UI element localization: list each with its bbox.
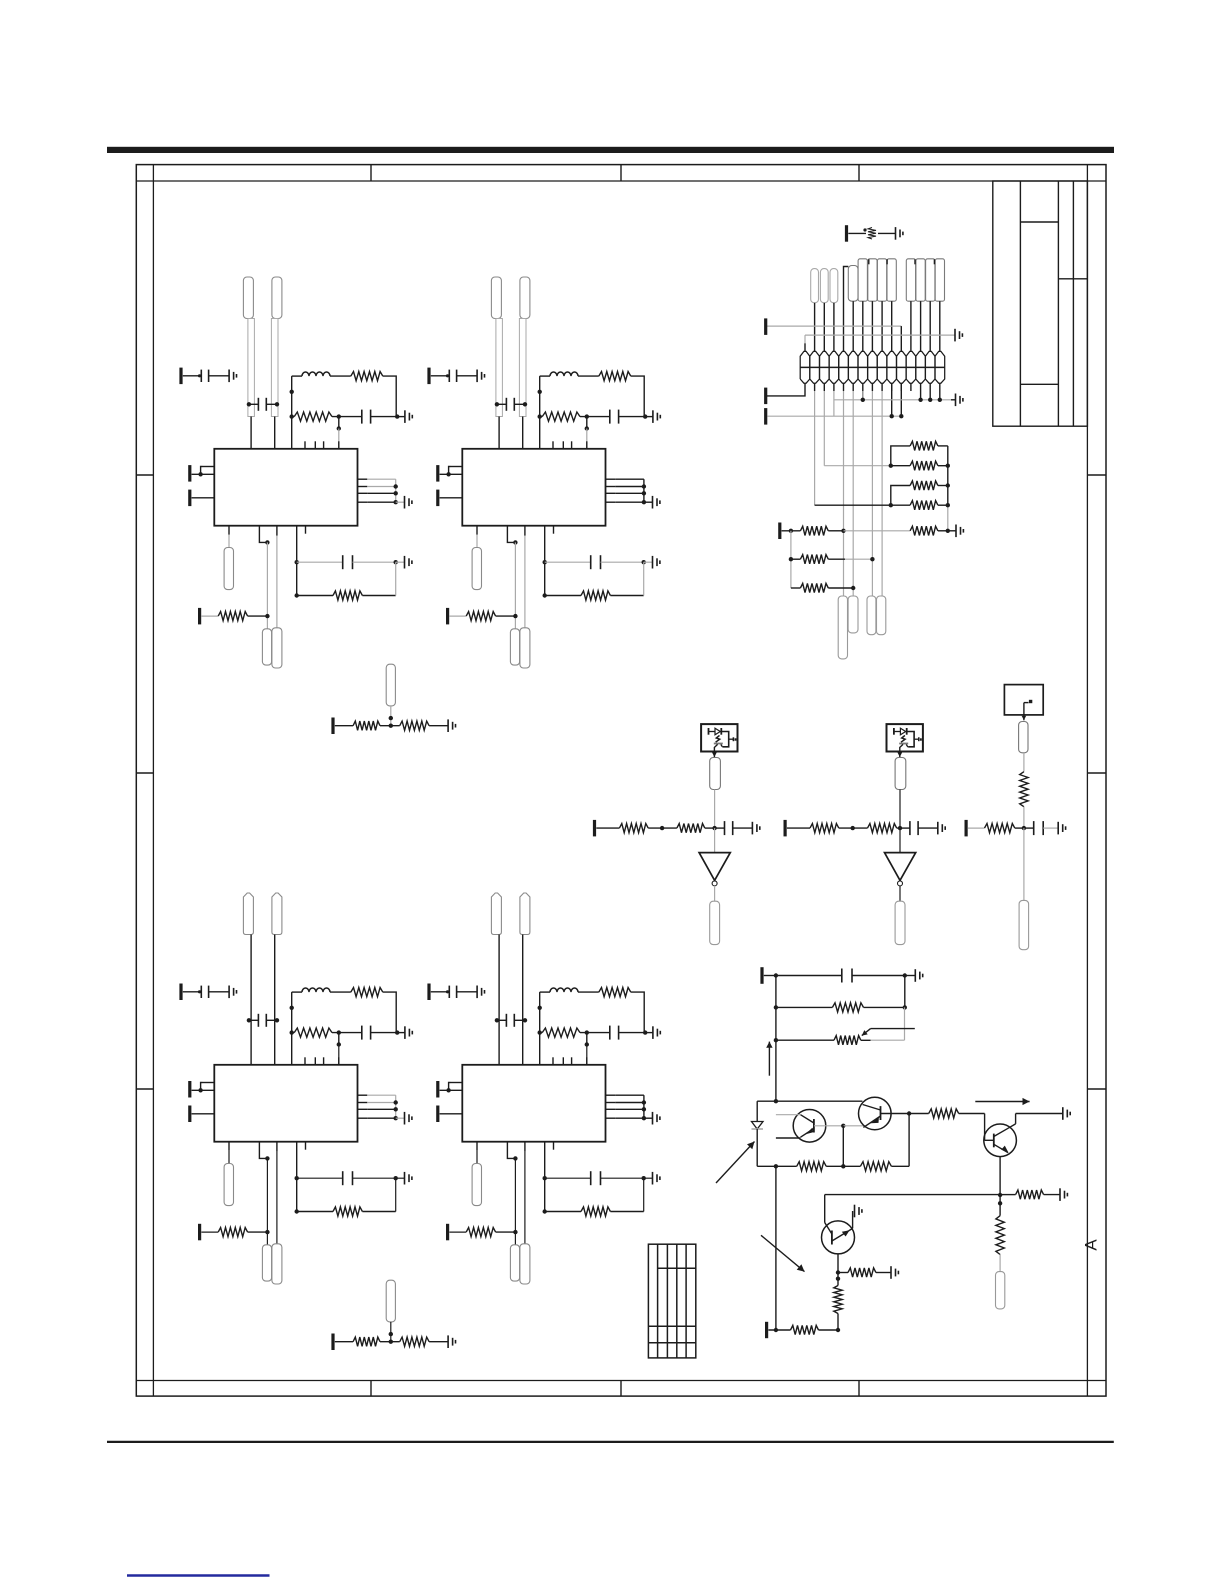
junction <box>774 1328 778 1332</box>
pin <box>900 383 902 391</box>
capacitor Ct <box>842 969 852 983</box>
pin <box>910 383 912 391</box>
wire <box>431 375 450 377</box>
wire <box>580 1032 610 1034</box>
junction <box>642 560 646 564</box>
wire <box>1043 827 1058 829</box>
pin <box>606 478 616 480</box>
net label pill IN1 <box>491 277 501 319</box>
wire <box>524 536 526 628</box>
net label pill <box>510 629 519 665</box>
pin <box>228 526 230 535</box>
wire <box>371 1032 398 1034</box>
junction <box>389 724 393 728</box>
junction <box>295 1176 299 1180</box>
resistor R-fb <box>351 372 383 381</box>
wire <box>353 1177 396 1179</box>
junction <box>446 472 450 476</box>
op-amp IC U1 <box>214 1065 357 1142</box>
wire <box>1008 1124 1016 1128</box>
wire <box>644 1117 653 1119</box>
wire <box>891 1165 909 1167</box>
net label pill <box>811 269 819 303</box>
pin <box>562 441 564 449</box>
wire <box>852 975 905 977</box>
junction <box>394 560 398 564</box>
wire <box>540 1032 543 1034</box>
wire net IN2 <box>271 319 278 417</box>
pin <box>524 526 526 536</box>
wire <box>1023 753 1025 772</box>
wire <box>776 975 842 977</box>
wire <box>545 561 591 563</box>
junction <box>774 1164 778 1168</box>
junction <box>543 593 547 597</box>
wire <box>266 403 277 405</box>
wire net <box>871 391 873 596</box>
wire <box>201 467 203 475</box>
border zone divider bottom <box>370 1381 372 1397</box>
wire <box>843 1125 863 1127</box>
resistor R-d1 <box>353 721 380 730</box>
inductor L1 <box>550 988 578 992</box>
wire net <box>814 391 816 505</box>
pin <box>440 497 463 499</box>
resistor R-b <box>581 1207 610 1216</box>
net label pill <box>916 259 925 301</box>
annotation arrow to diode <box>716 1142 755 1184</box>
wire <box>643 1095 645 1118</box>
junction <box>585 426 589 430</box>
resistor R-b <box>333 591 362 600</box>
net label pill <box>848 266 858 302</box>
wire <box>814 1125 843 1127</box>
pin <box>314 1057 316 1065</box>
junction <box>523 402 527 406</box>
pin <box>852 383 854 391</box>
junction <box>290 1006 294 1010</box>
wire <box>449 615 466 617</box>
pin <box>871 383 873 391</box>
wire <box>457 991 478 993</box>
wire <box>601 561 644 563</box>
zone letter A <box>1082 1239 1101 1251</box>
junction <box>851 826 855 830</box>
border zone divider left <box>136 474 153 476</box>
junction <box>247 1018 251 1022</box>
wire <box>897 827 900 829</box>
net label pill <box>867 596 876 635</box>
net label pill <box>272 1244 282 1284</box>
wire <box>586 417 588 429</box>
wire <box>276 1152 278 1244</box>
junction <box>889 464 893 468</box>
pin <box>358 478 368 480</box>
net label pill <box>877 259 886 301</box>
border zone divider right <box>1087 772 1106 774</box>
junction <box>841 1164 845 1168</box>
wire <box>899 790 901 829</box>
wire to pin <box>274 417 276 449</box>
wire <box>228 1151 230 1164</box>
junction <box>642 491 646 495</box>
ground <box>477 986 484 999</box>
net label pill <box>710 758 721 790</box>
wire <box>380 1341 400 1343</box>
pin <box>192 497 215 499</box>
junction <box>903 973 907 977</box>
junction <box>938 398 942 402</box>
junction <box>890 414 894 418</box>
wire <box>826 1165 843 1167</box>
ground <box>653 1112 660 1125</box>
junction <box>543 1176 547 1180</box>
net label pill <box>820 269 828 303</box>
power port <box>188 1106 191 1123</box>
inductor L1 <box>550 372 578 376</box>
wire <box>297 595 333 597</box>
junction <box>395 414 399 418</box>
wire <box>396 1117 405 1119</box>
ground <box>448 1335 455 1348</box>
pin <box>440 1113 463 1115</box>
wire <box>776 1165 797 1167</box>
junction <box>198 374 201 377</box>
wire <box>1015 827 1024 829</box>
wire <box>757 1100 862 1102</box>
connector block J2 <box>1004 685 1043 715</box>
power port <box>764 408 767 425</box>
resistor R-b <box>333 1207 362 1216</box>
resistor R-z <box>542 1028 580 1037</box>
wire to pin <box>250 1033 252 1065</box>
wire <box>864 1006 905 1008</box>
wire net IN2 <box>519 319 526 417</box>
junction <box>394 1116 398 1120</box>
resistor R-d2 <box>400 1337 429 1346</box>
border zone divider top <box>620 165 622 181</box>
wire <box>266 1019 277 1021</box>
ground <box>653 496 660 509</box>
wire <box>714 790 716 829</box>
wire <box>249 403 259 405</box>
junction <box>642 1100 646 1104</box>
junction <box>389 1340 393 1344</box>
net label pill <box>472 1164 481 1206</box>
wire <box>431 991 450 993</box>
wire <box>371 416 398 418</box>
wire <box>201 615 218 617</box>
wire <box>395 479 397 502</box>
ground <box>1060 1188 1067 1201</box>
wire arrow <box>712 752 717 758</box>
transistor Q3 <box>984 1124 1017 1157</box>
wire <box>266 1158 268 1244</box>
sheet border outer <box>136 165 1106 1397</box>
wire <box>297 561 343 563</box>
power port <box>331 1334 334 1351</box>
net label pill <box>1019 900 1029 949</box>
resistor R-fb <box>599 988 631 997</box>
pin <box>606 486 616 488</box>
power port <box>198 608 201 625</box>
wire node <box>291 376 293 449</box>
pin <box>276 526 278 536</box>
wire <box>910 301 912 351</box>
wire <box>776 1137 801 1139</box>
wire net <box>833 391 835 416</box>
wire <box>383 376 396 417</box>
junction <box>265 1156 269 1160</box>
wire <box>947 505 949 531</box>
wire <box>645 1032 653 1034</box>
pin <box>814 383 816 391</box>
wire <box>644 501 653 503</box>
net label pill IN2 <box>272 277 282 319</box>
junction <box>774 1005 778 1009</box>
wire <box>904 1007 906 1040</box>
wire arrow <box>897 752 902 758</box>
pin <box>606 1094 616 1096</box>
pin <box>338 441 340 449</box>
power port <box>593 820 596 837</box>
title block <box>993 181 1088 426</box>
wire <box>645 416 653 418</box>
pin <box>920 383 922 400</box>
wire <box>825 1194 1000 1196</box>
pin <box>192 473 215 475</box>
junction <box>774 1038 778 1042</box>
junction <box>643 414 647 418</box>
wire arrow <box>1022 715 1027 720</box>
capacitor C-z <box>362 410 371 424</box>
resistor R-m <box>466 612 495 621</box>
wire <box>514 542 516 628</box>
pin <box>304 1057 306 1065</box>
junction <box>523 1018 527 1022</box>
pin wire <box>544 1142 546 1212</box>
junction <box>928 398 932 402</box>
junction <box>836 1328 840 1332</box>
wire <box>899 886 901 901</box>
junction <box>295 593 299 597</box>
wire <box>395 1095 397 1118</box>
junction <box>265 614 269 618</box>
ground <box>855 1205 862 1218</box>
wire <box>900 326 902 351</box>
wire <box>862 391 864 400</box>
net label pill IN1 <box>243 893 253 935</box>
resistor Rt1 <box>832 1003 863 1012</box>
power port <box>188 465 191 482</box>
net label pill IN1 <box>491 893 501 935</box>
resistor RB <box>910 461 938 470</box>
pin <box>939 383 941 400</box>
pin-1 tick <box>933 259 935 264</box>
wire <box>776 1039 834 1041</box>
junction <box>851 586 855 590</box>
junction <box>389 716 393 720</box>
resistor R2 <box>910 526 938 535</box>
junction <box>903 1005 907 1009</box>
junction <box>712 826 716 830</box>
capacitor C-byp <box>591 1171 601 1185</box>
junction <box>290 390 294 394</box>
wire <box>353 561 396 563</box>
wire <box>714 886 716 901</box>
pin <box>823 383 825 391</box>
resistor Ra <box>810 824 839 833</box>
junction <box>642 484 646 488</box>
power port <box>436 465 439 482</box>
power port <box>783 820 786 837</box>
junction <box>337 1030 341 1034</box>
ground <box>229 986 236 999</box>
transistor Q4 <box>822 1221 855 1254</box>
wire <box>776 1006 833 1008</box>
resistor Re1 <box>797 1162 827 1171</box>
wire <box>968 827 985 829</box>
wire <box>610 1211 643 1213</box>
junction <box>198 990 201 993</box>
wire <box>457 375 478 377</box>
wire <box>514 1158 516 1244</box>
pin <box>571 1057 573 1065</box>
resistor Rb <box>868 824 897 833</box>
wire <box>228 535 230 548</box>
pin <box>476 526 478 535</box>
wire <box>848 232 866 234</box>
resistor R-m <box>466 1228 495 1237</box>
pin <box>259 1142 267 1159</box>
wire <box>383 992 396 1033</box>
op-amp IC U1 <box>462 1065 605 1142</box>
wire net IN2 <box>522 935 524 1033</box>
net label pill <box>906 259 915 301</box>
wire <box>837 1273 839 1286</box>
wire <box>920 301 922 351</box>
wire <box>939 301 941 351</box>
junction <box>394 484 398 488</box>
inductor L1 <box>302 988 330 992</box>
wire <box>643 1178 645 1211</box>
resistor RA <box>910 441 938 450</box>
pin <box>358 1117 368 1119</box>
wire <box>292 991 302 993</box>
resistor Rb3 <box>929 1109 959 1118</box>
wire <box>938 530 948 532</box>
net label pill <box>710 901 720 944</box>
pin <box>305 526 307 534</box>
junction <box>337 426 341 430</box>
wire net <box>881 391 883 596</box>
pin <box>881 383 883 391</box>
capacitor C-byp <box>343 1171 353 1185</box>
ground <box>915 969 922 982</box>
wire <box>905 975 916 977</box>
net label pill <box>830 269 838 303</box>
capacitor C-dec <box>201 986 208 998</box>
wire <box>909 1113 929 1115</box>
ground <box>229 370 236 383</box>
power port <box>778 523 781 540</box>
pin-1 tick <box>868 259 870 264</box>
wire <box>839 827 868 829</box>
capacitor C-in <box>258 398 266 411</box>
wire <box>335 725 353 727</box>
wire <box>396 561 405 563</box>
wire net <box>805 334 955 336</box>
wire <box>601 1177 644 1179</box>
wire net <box>834 399 951 401</box>
pin <box>440 1089 463 1091</box>
capacitor C-in <box>506 398 514 411</box>
annotation arrow up <box>766 1042 772 1076</box>
net label pill <box>386 664 395 706</box>
junction <box>642 500 646 504</box>
capacitor C-in <box>258 1014 266 1027</box>
junction <box>660 826 664 830</box>
pin <box>507 1142 515 1159</box>
resistor R-m <box>218 1228 247 1237</box>
zener diode D1 <box>752 1122 764 1130</box>
junction <box>998 1193 1002 1197</box>
wire node <box>291 992 293 1065</box>
wire <box>449 1083 451 1091</box>
wire <box>948 530 956 532</box>
wire <box>545 1177 591 1179</box>
resistor R4 <box>800 583 828 592</box>
trimmer wiper wire <box>871 1028 915 1030</box>
junction <box>513 614 517 618</box>
junction <box>861 398 865 402</box>
wire <box>951 399 956 401</box>
wire <box>367 1102 395 1104</box>
pin <box>358 1102 368 1104</box>
wire <box>776 1114 801 1116</box>
wire net IN1 <box>498 935 500 1033</box>
net label pill <box>895 901 905 944</box>
wire <box>338 1045 340 1065</box>
wire <box>768 1329 790 1331</box>
wire <box>1000 1194 1016 1196</box>
wire net <box>844 530 911 532</box>
power port <box>436 1081 439 1098</box>
wire <box>332 416 362 418</box>
inverter gate <box>699 853 730 886</box>
wire net <box>767 325 901 327</box>
wire <box>292 1032 295 1034</box>
wire <box>183 991 202 993</box>
footer link underline <box>127 1574 270 1576</box>
capacitor C-z <box>610 1026 619 1040</box>
wire <box>1016 1113 1063 1115</box>
wire <box>266 542 268 628</box>
ground <box>653 1026 660 1039</box>
net label pill <box>838 596 847 659</box>
junction <box>836 1277 840 1281</box>
wire <box>891 383 893 416</box>
net label pill <box>262 1245 271 1281</box>
junction <box>290 414 294 418</box>
ground <box>405 1172 412 1185</box>
ground <box>405 496 412 509</box>
power port <box>436 490 439 507</box>
wire <box>476 1151 478 1164</box>
ground <box>653 410 660 423</box>
junction <box>836 1270 840 1274</box>
wire <box>984 1114 986 1141</box>
